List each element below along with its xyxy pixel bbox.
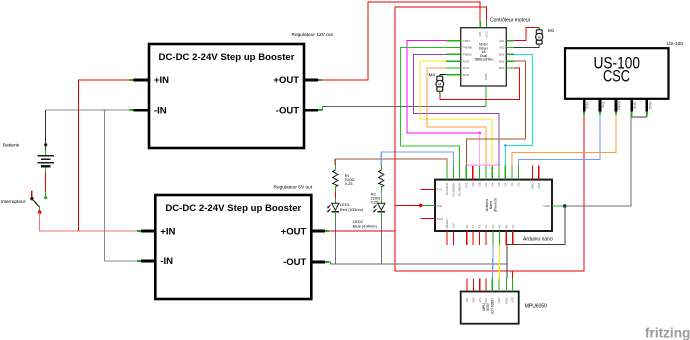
svg-text:AIN2: AIN2	[463, 59, 470, 63]
svg-text:A01: A01	[499, 39, 505, 43]
DC-DC booster U2 box	[155, 195, 311, 299]
svg-text:Regulateur 12V out: Regulateur 12V out	[292, 32, 334, 38]
svg-text:MPU6050: MPU6050	[525, 304, 547, 310]
svg-text:B01: B01	[499, 59, 505, 63]
wire -IN junction to booster2 -IN (gray)	[105, 110, 137, 261]
svg-text:fritzing: fritzing	[645, 326, 690, 340]
U5 pin Echo	[615, 99, 618, 112]
U3 right pin labels	[499, 39, 505, 70]
svg-text:+5V: +5V	[452, 223, 456, 228]
svg-text:D5: D5	[497, 182, 501, 186]
svg-text:M: M	[538, 35, 541, 39]
U4 left pin VIN stub	[421, 204, 435, 206]
DC-DC booster U1 box	[149, 44, 304, 148]
svg-text:Trig: Trig	[601, 102, 605, 108]
motor M1	[538, 28, 540, 31]
MPU6050 U6 box	[461, 292, 519, 324]
svg-text:US-100: US-100	[667, 41, 684, 47]
svg-text:B02: B02	[499, 52, 505, 56]
svg-text:GND: GND	[531, 182, 535, 190]
U4 left pin RX0 stub	[421, 218, 436, 220]
wire gray -OUT1 to U3 GND	[322, 106, 487, 110]
svg-text:XDA: XDA	[484, 298, 488, 304]
svg-text:GND: GND	[648, 102, 652, 110]
svg-text:Echo: Echo	[617, 102, 621, 110]
wire red 5V net U3 VCC / +OUT2 / US-100 VCC	[395, 7, 584, 271]
U5 pin VCC	[583, 99, 586, 112]
svg-text:+IN: +IN	[160, 226, 175, 237]
svg-text:STBY: STBY	[463, 39, 471, 43]
wire red MPU VCC tap	[512, 271, 514, 279]
U4 top pin stubs	[447, 165, 518, 179]
wire blue US100 Trig to arduino	[518, 115, 600, 166]
svg-text:D2: D2	[517, 182, 521, 186]
U1 pin +IN stub	[130, 79, 134, 81]
svg-text:A2: A2	[478, 224, 482, 228]
US-100 U5 box	[565, 48, 669, 99]
svg-text:Batterie: Batterie	[3, 143, 20, 149]
wire battery+ to booster2 +IN (red)	[40, 212, 137, 231]
U5 pin GND1	[630, 99, 633, 112]
wire black GND node to MPU GND	[507, 206, 565, 279]
svg-text:A6: A6	[504, 224, 508, 228]
U4 inside label	[485, 198, 497, 212]
svg-text:A1: A1	[471, 224, 475, 228]
U1 pin -OUT stub	[304, 109, 318, 112]
svg-text:TB6612FNG: TB6612FNG	[474, 58, 493, 62]
svg-text:M1: M1	[548, 28, 555, 33]
wire brown U3 B01 to arduino	[466, 61, 525, 165]
svg-text:DC-DC 2-24V Step up Booster: DC-DC 2-24V Step up Booster	[165, 203, 301, 214]
node switch right terminal	[44, 196, 47, 199]
U1 pin -IN stub	[130, 109, 134, 111]
wire brown R1 top to Arduino D pin	[335, 159, 447, 165]
U6 pin labels	[465, 296, 514, 304]
wire switch bottom green segment	[39, 207, 41, 211]
svg-text:Red (633nm): Red (633nm)	[340, 207, 364, 212]
svg-text:Regulateur 5V out: Regulateur 5V out	[274, 185, 313, 191]
svg-text:DC-DC 2-24V Step up Booster: DC-DC 2-24V Step up Booster	[159, 52, 295, 63]
wire yellow arduino A5 to MPU SCL	[498, 245, 500, 279]
wire orange U3 AIN1 to arduino	[427, 68, 486, 165]
svg-text:A7: A7	[511, 224, 515, 228]
svg-text:Blue (430nm): Blue (430nm)	[353, 223, 378, 228]
svg-text:VM: VM	[478, 31, 482, 36]
U4 left pin TX1 stub	[421, 188, 436, 190]
wire orange US100 Echo to arduino	[512, 115, 616, 166]
wire LED2 cathode to GND rail	[380, 212, 382, 217]
Arduino nano U4 box	[435, 180, 552, 231]
svg-text:Arduino nano: Arduino nano	[523, 237, 553, 243]
svg-text:A5: A5	[498, 224, 502, 228]
U4 bottom pin labels	[445, 218, 515, 228]
motor driver U3 box	[461, 28, 507, 86]
node GND junction right of arduino	[563, 204, 567, 208]
wire gray U3 A02 to M1	[514, 46, 539, 47]
svg-text:B02: B02	[499, 66, 505, 70]
svg-text:A3: A3	[484, 224, 488, 228]
U3 left pin labels	[463, 39, 472, 77]
U3 inside label	[474, 43, 493, 62]
U4 bottom pin unconnected stubs	[447, 231, 513, 245]
svg-text:GND: GND	[633, 102, 637, 110]
svg-text:A0: A0	[465, 224, 469, 228]
svg-text:INT: INT	[465, 297, 469, 302]
svg-text:A4: A4	[491, 224, 495, 228]
node -IN junction	[104, 109, 106, 111]
svg-text:VCC: VCC	[511, 296, 515, 303]
svg-text:AIN1: AIN1	[463, 66, 470, 70]
svg-text:SCL: SCL	[497, 297, 501, 303]
svg-text:D10: D10	[464, 182, 468, 188]
svg-text:GND: GND	[484, 73, 488, 81]
svg-text:D4: D4	[503, 182, 507, 186]
wire red +OUT2 to VIN	[329, 230, 395, 232]
U4 bottom pin connected stubs	[493, 231, 499, 245]
U3 left pins stubs	[446, 41, 461, 75]
resistor R1	[334, 165, 336, 170]
svg-text:D3: D3	[510, 182, 514, 186]
U5 pin Trig	[599, 99, 602, 112]
svg-text:SDA: SDA	[490, 298, 494, 304]
U5 pin GND2	[645, 99, 648, 112]
svg-text:+OUT: +OUT	[281, 226, 307, 237]
svg-text:D12/MISO: D12/MISO	[452, 182, 456, 197]
svg-text:-IN: -IN	[160, 256, 173, 267]
wire green U3 PWMB to arduino	[401, 48, 460, 166]
svg-text:XCL: XCL	[478, 297, 482, 303]
U3 top pin VM	[479, 22, 481, 28]
svg-text:PWMB: PWMB	[463, 46, 472, 50]
svg-text:0.25: 0.25	[345, 181, 354, 186]
wire battery top green tip	[45, 150, 47, 155]
node switch left terminal	[30, 197, 33, 200]
svg-text:Interrupteur: Interrupteur	[1, 199, 26, 205]
wire +IN1 red	[78, 80, 129, 231]
node magenta bendpoint	[479, 132, 481, 134]
U3 top pin VCC	[485, 22, 487, 28]
U2 pin +OUT stub	[311, 230, 325, 233]
svg-text:M: M	[438, 83, 441, 87]
wire red 5V to arduino VIN	[395, 204, 421, 206]
wire blue arduino A4 to MPU SDA	[492, 245, 495, 279]
U6 connected pin stubs	[492, 279, 512, 292]
wire gray -OUT2 ground rail	[329, 262, 507, 264]
svg-text:-OUT: -OUT	[276, 105, 299, 116]
LED1	[332, 203, 339, 210]
svg-text:+OUT: +OUT	[273, 75, 299, 86]
U4 top pin unconnected stubs	[473, 165, 539, 179]
svg-text:RX0: RX0	[437, 217, 443, 221]
wire R1 to LED1	[334, 191, 336, 198]
U2 pin -IN stub	[137, 260, 141, 262]
wire battery top to -IN net (black vertical)	[45, 110, 47, 150]
svg-text:RESET: RESET	[445, 218, 449, 228]
node switch bottom pin	[38, 210, 42, 214]
node cyan bendpoint	[504, 144, 507, 147]
svg-text:D11/MOSI: D11/MOSI	[458, 182, 462, 196]
switch S1 lever	[32, 199, 40, 208]
svg-text:-OUT: -OUT	[283, 257, 306, 268]
svg-text:VCC: VCC	[484, 30, 488, 37]
node battery top pin	[44, 143, 47, 146]
svg-text:M4: M4	[429, 72, 436, 77]
wire yellow U3 AIN2 to arduino	[420, 61, 492, 165]
svg-text:D6: D6	[490, 182, 494, 186]
U3 right pins stubs	[506, 41, 514, 68]
resistor R2	[380, 166, 382, 170]
wire red U3 A01 to M1	[514, 28, 539, 41]
svg-text:(Rev3.0): (Rev3.0)	[493, 198, 497, 212]
wire LED1 cathode to GND rail	[334, 212, 336, 217]
svg-text:Contrôleur moteur: Contrôleur moteur	[490, 18, 531, 24]
wire R2 to LED2	[380, 191, 382, 198]
svg-text:D9: D9	[471, 182, 475, 186]
switch S1 left terminal red stub	[31, 190, 33, 198]
svg-text:GND: GND	[505, 297, 509, 305]
U2 pin -OUT stub	[311, 261, 325, 264]
motor M4	[439, 74, 441, 76]
U6 inside label	[482, 300, 494, 314]
svg-text:D7: D7	[484, 182, 488, 186]
wire red +OUT1 to U3 VM	[322, 2, 480, 80]
svg-text:VCC: VCC	[585, 102, 589, 110]
wire red U3 B02b to M4	[440, 68, 520, 99]
wire magenta U3 STBY to arduino	[407, 41, 479, 133]
svg-text:VIN: VIN	[437, 204, 442, 208]
svg-text:CSC: CSC	[603, 68, 630, 86]
U4 top pin labels	[445, 182, 541, 197]
wire battery bottom green-red-green	[45, 168, 47, 173]
wire GND1-GND2 bridge	[631, 114, 633, 117]
svg-text:RST: RST	[537, 182, 541, 188]
svg-text:AD0: AD0	[471, 297, 475, 303]
U3 bottom pin GND	[485, 86, 487, 106]
wire blue R2 top to Arduino D pin	[381, 152, 453, 166]
LED2	[378, 203, 385, 210]
svg-text:A02: A02	[499, 46, 505, 50]
svg-text:D8: D8	[478, 182, 482, 186]
wire pink link to pin D8	[479, 133, 481, 165]
U4 right pin GND stub	[552, 205, 563, 207]
wire black US100 GND to arduino GND node	[565, 115, 631, 207]
wire -IN1 horizontal (gray)	[46, 109, 133, 111]
U2 pin +IN stub	[137, 230, 141, 232]
wire black U3 BIN2 to M4	[440, 73, 446, 75]
svg-text:TX1: TX1	[437, 188, 443, 192]
svg-text:BIN2: BIN2	[463, 73, 470, 77]
node red junction VIN	[419, 204, 423, 208]
svg-text:+IN: +IN	[154, 75, 169, 86]
battery BAT1 plates	[37, 156, 54, 167]
svg-text:-IN: -IN	[154, 105, 167, 116]
svg-text:D13/SCK: D13/SCK	[445, 183, 449, 196]
wire cyan U3 B02 to arduino	[505, 54, 532, 165]
wire violet U3 PWMA to arduino	[414, 54, 500, 165]
svg-text:PWMA: PWMA	[463, 52, 472, 56]
svg-text:GND: GND	[543, 204, 551, 208]
U1 pin +OUT stub	[304, 79, 318, 82]
U6 unconnected pin stubs	[467, 279, 486, 292]
